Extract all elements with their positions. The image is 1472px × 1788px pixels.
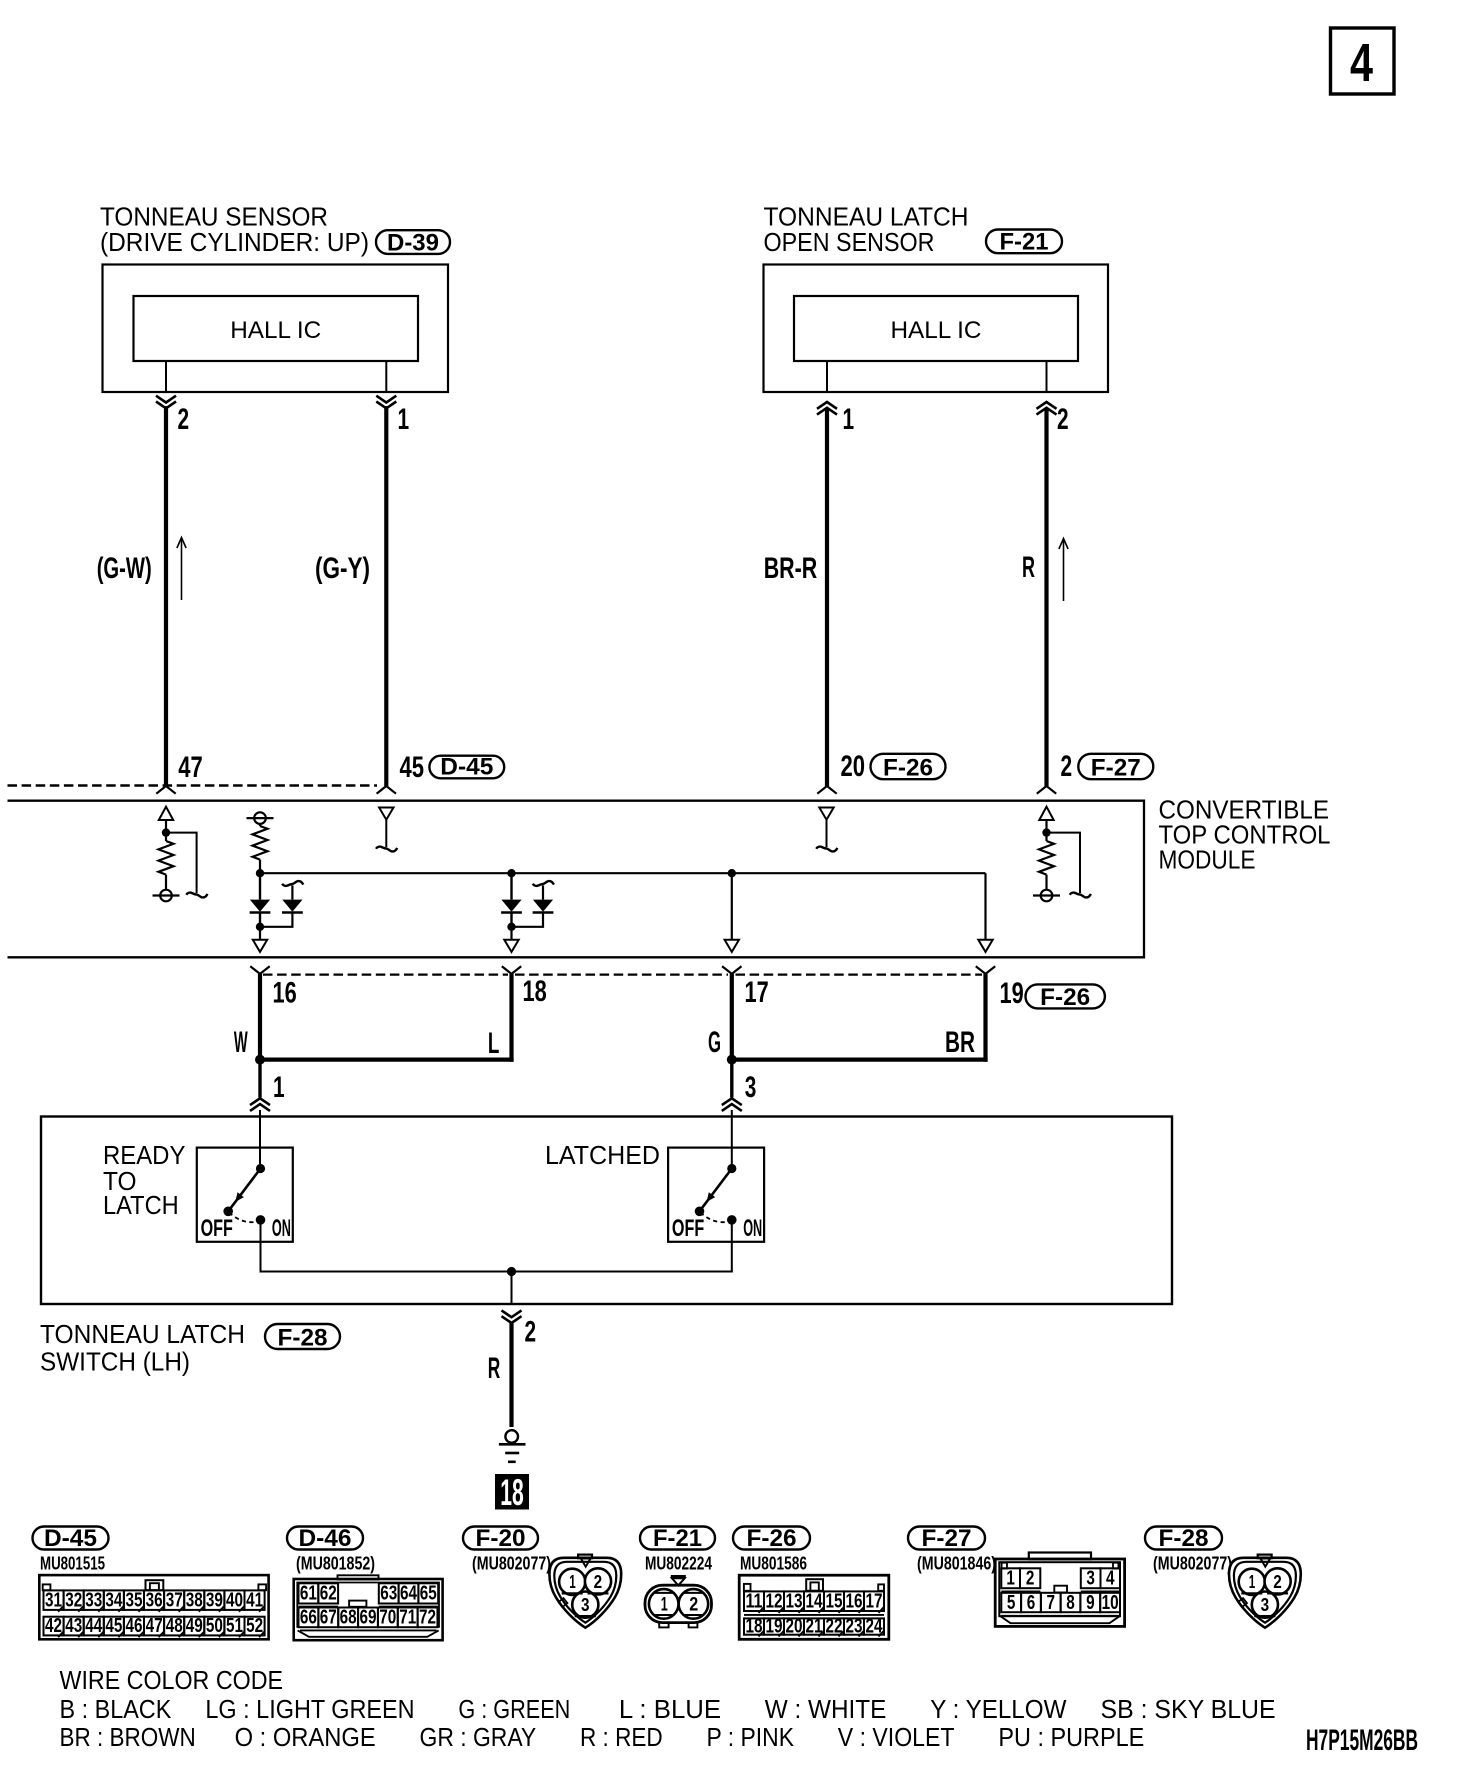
svg-text:8: 8	[1066, 1592, 1075, 1614]
wire to switch pin 1	[258, 1060, 261, 1098]
svg-text:6: 6	[1027, 1592, 1036, 1614]
svg-text:F-26: F-26	[747, 1525, 797, 1552]
svg-text:SB : SKY BLUE: SB : SKY BLUE	[1101, 1696, 1276, 1724]
svg-text:MU802224: MU802224	[645, 1553, 713, 1574]
svg-text:LATCHED: LATCHED	[545, 1142, 660, 1170]
svg-text:(G-Y): (G-Y)	[315, 552, 370, 585]
svg-text:TONNEAU LATCH: TONNEAU LATCH	[40, 1321, 245, 1349]
svg-text:63: 63	[380, 1583, 397, 1605]
svg-text:TONNEAU LATCH: TONNEAU LATCH	[764, 203, 969, 231]
wire R to ground	[509, 1323, 513, 1427]
pin17 Y connector	[722, 966, 741, 974]
svg-text:2: 2	[689, 1595, 698, 1616]
svg-text:11: 11	[746, 1591, 763, 1613]
svg-text:52: 52	[246, 1615, 263, 1637]
svg-text:68: 68	[340, 1607, 357, 1629]
tonneau sensor (drive cylinder: up) title	[100, 203, 369, 256]
svg-text:L: L	[488, 1027, 500, 1060]
svg-text:13: 13	[786, 1591, 803, 1613]
wire into switch 1	[259, 1110, 261, 1164]
resistor R3 (pin16)	[253, 826, 268, 860]
connector F-21 pin face	[645, 1577, 712, 1628]
connector chevrons pin 2 (D-39)	[156, 396, 176, 409]
svg-text:(MU801852): (MU801852)	[296, 1553, 375, 1574]
svg-text:BR : BROWN: BR : BROWN	[60, 1724, 196, 1752]
tonneau latch open sensor box	[764, 265, 1109, 393]
ground reference tag 18	[495, 1472, 529, 1513]
svg-text:66: 66	[300, 1607, 317, 1629]
connector label F-28	[1145, 1525, 1222, 1552]
connector chevrons pin 1 (D-39)	[376, 396, 396, 409]
svg-text:16: 16	[273, 977, 297, 1010]
terminal circle	[1033, 890, 1060, 902]
svg-text:2: 2	[1057, 403, 1069, 436]
connector D-45 dashed line	[8, 784, 378, 787]
svg-text:15: 15	[826, 1591, 843, 1613]
svg-text:44: 44	[85, 1615, 103, 1637]
node dot pin16 bus	[256, 869, 264, 877]
svg-text:1: 1	[843, 403, 855, 436]
node dot pin2	[1042, 828, 1050, 836]
svg-text:F-20: F-20	[476, 1525, 526, 1552]
wire (G-Y) sensor pin1 to module pin45	[384, 406, 388, 786]
svg-text:4: 4	[1106, 1568, 1115, 1590]
svg-text:69: 69	[360, 1607, 377, 1629]
svg-text:43: 43	[65, 1615, 82, 1637]
svg-text:62: 62	[320, 1583, 337, 1605]
svg-text:P : PINK: P : PINK	[707, 1724, 795, 1752]
connector label F-27	[908, 1525, 985, 1552]
signal direction arrow	[177, 538, 186, 601]
svg-text:W: W	[234, 1026, 248, 1059]
wire: hall ic pin leads (right sensor)	[826, 361, 828, 392]
svg-text:32: 32	[65, 1589, 82, 1611]
svg-text:HALL IC: HALL IC	[891, 317, 982, 344]
svg-text:H7P15M26BB: H7P15M26BB	[1306, 1724, 1418, 1757]
wire	[165, 820, 167, 829]
svg-text:(MU801846): (MU801846)	[917, 1553, 996, 1574]
svg-text:35: 35	[126, 1589, 143, 1611]
svg-text:16: 16	[846, 1591, 863, 1613]
svg-text:48: 48	[166, 1615, 183, 1637]
svg-text:2: 2	[525, 1316, 537, 1349]
switch S2 latched	[668, 1148, 764, 1272]
connector label F-26	[871, 754, 946, 782]
svg-text:(DRIVE CYLINDER: UP): (DRIVE CYLINDER: UP)	[100, 229, 369, 257]
wire R sensor pin2 to module pin2	[1044, 408, 1048, 786]
svg-text:17: 17	[866, 1591, 883, 1613]
svg-text:Y : YELLOW: Y : YELLOW	[930, 1696, 1066, 1724]
diode D3	[510, 873, 512, 899]
module internal: pin2 input triangle	[1039, 807, 1053, 820]
output triangle pin18	[504, 940, 518, 952]
page number box 4	[1331, 28, 1395, 94]
pin 20 split	[817, 786, 836, 794]
hall ic U2 box	[794, 296, 1078, 361]
svg-text:W : WHITE: W : WHITE	[765, 1696, 887, 1724]
svg-text:(G-W): (G-W)	[97, 552, 152, 585]
svg-text:61: 61	[300, 1583, 317, 1605]
node dot switch common out	[507, 1267, 516, 1276]
svg-text:31: 31	[45, 1589, 62, 1611]
svg-text:47: 47	[178, 751, 203, 784]
terminal circle	[153, 890, 180, 902]
connector label F-26	[733, 1525, 810, 1552]
svg-text:50: 50	[206, 1615, 223, 1637]
wire W module pin16 to switch pin1	[258, 974, 262, 1060]
svg-text:R: R	[488, 1352, 501, 1385]
svg-text:67: 67	[320, 1607, 337, 1629]
svg-text:72: 72	[419, 1607, 436, 1629]
svg-text:12: 12	[766, 1591, 783, 1613]
svg-text:B : BLACK: B : BLACK	[60, 1696, 172, 1724]
wire color code legend	[60, 1667, 1276, 1752]
wire BR module pin19 joins G	[983, 974, 987, 1062]
pin19 Y connector	[976, 966, 995, 974]
convertible top control module box	[8, 801, 1145, 958]
wire to switch pin 3	[730, 1060, 733, 1098]
svg-text:READY: READY	[103, 1142, 185, 1170]
svg-text:D-46: D-46	[299, 1525, 352, 1552]
wire	[165, 875, 167, 890]
svg-text:2: 2	[178, 403, 190, 436]
svg-text:WIRE COLOR CODE: WIRE COLOR CODE	[60, 1667, 284, 1695]
bus corner to pin19	[984, 873, 986, 940]
module internal: pin45 stub	[379, 808, 393, 820]
svg-text:1: 1	[661, 1595, 668, 1616]
node dot pin17 bus	[728, 869, 736, 877]
connector chevrons switch pin3 (F-28)	[722, 1098, 742, 1111]
svg-text:2: 2	[1026, 1568, 1035, 1590]
svg-text:F-28: F-28	[1159, 1525, 1209, 1552]
pin16 Y connector	[250, 966, 269, 974]
svg-text:F-27: F-27	[1091, 755, 1141, 782]
svg-text:F-21: F-21	[1000, 229, 1049, 256]
connector chevrons pin2 (F-28)	[502, 1310, 522, 1323]
pin 45 split	[377, 786, 396, 794]
svg-text:70: 70	[379, 1607, 396, 1629]
node dot pin47	[162, 828, 170, 836]
wire (G-W) sensor pin2 to module pin47	[164, 406, 168, 786]
svg-text:40: 40	[226, 1589, 243, 1611]
wire L module pin18 joins W	[509, 974, 513, 1062]
svg-text:MU801515: MU801515	[40, 1553, 105, 1574]
hall ic U1 box	[134, 296, 419, 361]
pin18 Y connector	[502, 966, 521, 974]
connector chevrons pin 2 (F-21)	[1037, 402, 1057, 415]
svg-text:GR : GRAY: GR : GRAY	[420, 1724, 537, 1752]
svg-text:37: 37	[166, 1589, 183, 1611]
svg-text:71: 71	[399, 1607, 416, 1629]
svg-text:38: 38	[186, 1589, 203, 1611]
svg-text:LATCH: LATCH	[103, 1192, 179, 1220]
connector label F-21	[986, 229, 1062, 256]
svg-text:19: 19	[1000, 977, 1024, 1010]
connector label D-46	[287, 1525, 363, 1552]
svg-text:46: 46	[126, 1615, 143, 1637]
svg-text:G : GREEN: G : GREEN	[458, 1696, 570, 1724]
diode D4 (clamp)	[515, 913, 544, 927]
connector label F-26	[1026, 984, 1105, 1011]
svg-text:20: 20	[841, 750, 866, 783]
svg-text:F-26: F-26	[1040, 984, 1090, 1011]
svg-text:41: 41	[246, 1589, 263, 1611]
connector F-26 pin face	[739, 1575, 889, 1639]
svg-text:4: 4	[1350, 33, 1373, 93]
resistor R2 (pin2 bias)	[1039, 841, 1054, 875]
node dot W/L junction	[255, 1055, 265, 1065]
node dot pin18 bus	[507, 869, 515, 877]
svg-text:(MU802077): (MU802077)	[472, 1553, 551, 1574]
svg-text:F-28: F-28	[278, 1324, 328, 1351]
svg-text:G: G	[708, 1026, 721, 1059]
node dot below D1	[256, 923, 264, 931]
svg-text:HALL IC: HALL IC	[230, 317, 321, 344]
switch S1 ready-to-latch	[197, 1148, 293, 1272]
internal branch with hook (pin47)	[168, 833, 197, 893]
module internal: pin16 terminal circle	[247, 812, 274, 824]
svg-text:64: 64	[400, 1583, 418, 1605]
svg-text:49: 49	[186, 1615, 203, 1637]
wire BR-R sensor pin1 to module pin20	[825, 408, 829, 786]
svg-text:5: 5	[1007, 1592, 1016, 1614]
tonneau latch switch box	[41, 1117, 1172, 1305]
svg-text:O : ORANGE: O : ORANGE	[235, 1724, 376, 1752]
label tonneau latch switch (LH)	[40, 1321, 245, 1377]
diode D1	[259, 877, 261, 900]
svg-text:47: 47	[146, 1615, 163, 1637]
svg-text:36: 36	[146, 1589, 163, 1611]
node dot G/BR junction	[727, 1055, 737, 1065]
svg-text:7: 7	[1047, 1592, 1056, 1614]
wire	[165, 836, 167, 841]
svg-text:17: 17	[745, 976, 769, 1009]
wire to pin 2	[511, 1272, 513, 1305]
connector chevrons pin 1 (F-21)	[817, 402, 837, 415]
svg-text:TONNEAU SENSOR: TONNEAU SENSOR	[100, 203, 328, 231]
svg-text:PU : PURPLE: PU : PURPLE	[998, 1724, 1144, 1752]
connector F-26 dashed line	[263, 973, 508, 975]
svg-text:MODULE: MODULE	[1159, 847, 1256, 875]
svg-text:F-26: F-26	[883, 755, 933, 782]
connector label D-39	[376, 229, 450, 256]
connector F-27 pin face	[995, 1553, 1124, 1627]
svg-text:V : VIOLET: V : VIOLET	[838, 1724, 955, 1752]
svg-text:14: 14	[806, 1591, 824, 1613]
pin 47 split	[156, 786, 175, 794]
svg-text:18: 18	[523, 975, 547, 1008]
svg-text:33: 33	[85, 1589, 102, 1611]
svg-text:OPEN SENSOR: OPEN SENSOR	[764, 229, 935, 257]
signal direction arrow	[1059, 539, 1068, 602]
svg-text:R : RED: R : RED	[580, 1724, 663, 1752]
label ready to latch	[103, 1142, 185, 1220]
connector label D-45	[33, 1525, 109, 1552]
ground G1	[499, 1430, 526, 1462]
connector label D-45	[429, 754, 504, 781]
svg-text:L : BLUE: L : BLUE	[619, 1696, 721, 1724]
svg-text:45: 45	[105, 1615, 122, 1637]
connector D-45 pin face	[39, 1575, 268, 1639]
resistor R1 (pin47 bias)	[159, 841, 174, 875]
svg-text:R: R	[1022, 551, 1035, 584]
connector label F-27	[1078, 754, 1153, 782]
svg-text:CONVERTIBLE: CONVERTIBLE	[1159, 797, 1330, 825]
connector D-46 pin face	[294, 1575, 443, 1640]
svg-text:1: 1	[398, 403, 410, 436]
internal branch with hook (pin2)	[1049, 833, 1081, 893]
svg-text:LG : LIGHT GREEN: LG : LIGHT GREEN	[205, 1696, 414, 1724]
svg-text:MU801586: MU801586	[740, 1553, 807, 1574]
svg-text:2: 2	[1061, 750, 1073, 783]
svg-text:F-27: F-27	[922, 1525, 972, 1552]
module internal: pin20 stub	[819, 808, 833, 820]
svg-text:42: 42	[45, 1615, 62, 1637]
wire: hall ic pin leads (left sensor)	[165, 361, 167, 392]
connector label F-21	[640, 1525, 715, 1552]
svg-text:18: 18	[500, 1472, 524, 1513]
svg-text:BR: BR	[945, 1026, 975, 1059]
svg-text:BR-R: BR-R	[764, 552, 818, 585]
svg-text:SWITCH (LH): SWITCH (LH)	[40, 1349, 190, 1377]
svg-text:3: 3	[745, 1071, 757, 1104]
svg-text:45: 45	[400, 751, 425, 784]
svg-text:3: 3	[1086, 1568, 1095, 1590]
svg-text:D-45: D-45	[44, 1525, 97, 1552]
module name text	[1159, 797, 1331, 875]
connector label F-20	[463, 1525, 538, 1552]
wire G module pin17 to switch pin3	[730, 974, 734, 1060]
svg-text:9: 9	[1086, 1592, 1095, 1614]
svg-text:(MU802077): (MU802077)	[1153, 1553, 1232, 1574]
connector F-20 pin face	[549, 1555, 621, 1628]
connector F-28 pin face	[1229, 1555, 1301, 1628]
svg-text:65: 65	[420, 1583, 437, 1605]
output triangle pin19	[978, 940, 992, 952]
diode D2 (clamp)	[263, 913, 292, 927]
tonneau sensor box	[103, 265, 449, 393]
svg-text:10: 10	[1102, 1592, 1119, 1614]
node dot below D3	[507, 923, 515, 931]
svg-text:39: 39	[206, 1589, 223, 1611]
svg-text:D-45: D-45	[440, 754, 493, 781]
svg-text:34: 34	[105, 1589, 123, 1611]
svg-text:F-21: F-21	[653, 1525, 702, 1552]
wire into switch 3	[731, 1110, 733, 1164]
tonneau latch open sensor title	[764, 203, 969, 256]
svg-text:1: 1	[1006, 1568, 1015, 1590]
output triangle pin16	[253, 940, 267, 952]
internal bus wire	[260, 872, 986, 874]
connector chevrons switch pin1 (F-28)	[250, 1098, 270, 1111]
svg-text:51: 51	[226, 1615, 243, 1637]
connector label F-28	[265, 1324, 340, 1351]
svg-text:TOP CONTROL: TOP CONTROL	[1159, 822, 1331, 850]
output triangle pin17	[725, 940, 739, 952]
svg-text:1: 1	[273, 1071, 285, 1104]
wire joining switch outputs	[260, 1271, 733, 1273]
pin 2 split	[1037, 786, 1056, 794]
svg-text:D-39: D-39	[387, 229, 439, 256]
module internal: pin47 input triangle	[159, 807, 173, 820]
